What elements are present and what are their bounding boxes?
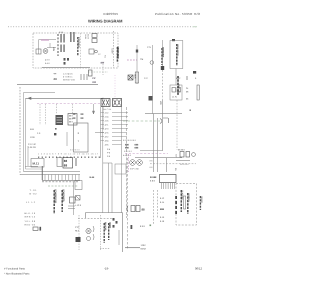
svg-text:05: 05	[186, 98, 189, 101]
small mark	[131, 225, 133, 229]
freezer compartment dashed box	[33, 33, 118, 68]
svg-text:W R B Y G B: W R B Y G B	[63, 79, 75, 82]
svg-text:J2-3: J2-3	[105, 128, 110, 131]
svg-text:P-6: P-6	[107, 148, 111, 151]
svg-text:* Non-Illustrated Parts: * Non-Illustrated Parts	[4, 273, 30, 276]
svg-text:888: 888	[125, 143, 130, 146]
defrost timer block	[56, 115, 64, 125]
wire vertical	[152, 45, 154, 114]
power cord wire	[125, 247, 140, 249]
connector J40 stacked	[92, 34, 97, 43]
wire main bus L1	[17, 84, 98, 86]
svg-text:HTR: HTR	[159, 101, 162, 105]
wire harness dashed	[113, 31, 115, 68]
svg-text:WTR VLV: WTR VLV	[180, 163, 189, 166]
svg-text:68: 68	[186, 91, 189, 94]
power plug text	[141, 244, 147, 251]
svg-text:6 7 8 9 0 1: 6 7 8 9 0 1	[63, 76, 73, 79]
wire dashed v1	[56, 104, 58, 114]
svg-text:T-01: T-01	[30, 189, 38, 192]
wire icemaker top	[39, 40, 57, 54]
svg-text:120V: 120V	[141, 244, 147, 247]
svg-text:B 888: B 888	[150, 176, 157, 179]
connector 888 block	[63, 158, 73, 169]
connector block J2	[101, 99, 110, 107]
water valve coil	[192, 153, 196, 157]
fan table pair B	[135, 143, 140, 149]
small connector box	[89, 70, 93, 76]
svg-text:# Functional Parts: # Functional Parts	[4, 268, 26, 271]
wire	[100, 107, 102, 158]
svg-text:12: 12	[98, 53, 101, 56]
svg-text:TM: TM	[140, 58, 143, 61]
wire dashed below connector	[153, 190, 155, 225]
bottom-left label block1	[30, 189, 38, 196]
svg-text:888: 888	[160, 208, 165, 211]
wire horizontal	[140, 150, 163, 152]
wire horizontal 2	[135, 157, 182, 159]
svg-text:2-0: 2-0	[37, 132, 41, 135]
wire vertical dashed 2	[45, 104, 47, 125]
svg-text:J3-2: J3-2	[105, 136, 110, 139]
svg-text:WIRING DIAGRAM: WIRING DIAGRAM	[88, 19, 123, 24]
bus vertical b	[126, 107, 128, 218]
wire dashed defrost	[162, 70, 164, 100]
svg-text:8-16: 8-16	[160, 216, 165, 219]
connector M11 box	[31, 159, 44, 168]
svg-text:L-04 2B: L-04 2B	[28, 146, 36, 149]
bottom-left label block2	[26, 201, 36, 204]
wire bus N	[24, 92, 56, 94]
wire violet dashed	[125, 153, 168, 155]
lower pin text stack	[107, 148, 111, 158]
svg-text:88: 88	[142, 208, 146, 212]
terminal labels row	[63, 73, 75, 82]
icemaker marks	[64, 58, 70, 65]
misc left labels	[28, 128, 41, 149]
board pin label column	[105, 112, 110, 147]
junction bar	[41, 166, 44, 180]
svg-text:PTC: PTC	[75, 226, 80, 229]
right column small parts: resistor bar	[197, 85, 199, 100]
wire (icemaker fill tube, violet)	[41, 39, 49, 41]
svg-text:ORG-12: ORG-12	[25, 216, 36, 219]
thermostat circle	[150, 61, 154, 65]
wire loop bottom middle	[24, 171, 81, 173]
svg-text:4 8 8: 4 8 8	[45, 59, 50, 62]
wire left loop inner	[25, 98, 27, 169]
wire dashed short	[102, 64, 104, 75]
svg-text:8 8 8 8 8 8 8 8: 8 8 8 8 8 8 8 8	[123, 139, 137, 142]
svg-text:J2-1: J2-1	[105, 124, 110, 127]
svg-text:WH C BK: WH C BK	[103, 108, 112, 111]
svg-text:1 2 3 4 5 6: 1 2 3 4 5 6	[63, 73, 73, 76]
wire left loop middle	[23, 93, 25, 172]
svg-text:8 8 8: 8 8 8	[150, 180, 156, 183]
wire	[176, 160, 190, 162]
wire pink dotted	[114, 75, 116, 105]
svg-text:888: 888	[135, 143, 140, 146]
svg-text:-19-: -19-	[104, 267, 109, 271]
icemaker mold heater	[36, 49, 41, 54]
wire	[73, 182, 75, 215]
svg-text:88 88 8: 88 88 8	[178, 149, 186, 152]
svg-text:AUGER: AUGER	[110, 48, 113, 54]
svg-text:L-12 8: L-12 8	[75, 204, 82, 207]
svg-text:88: 88	[81, 113, 84, 116]
node mark	[172, 39, 175, 41]
wire bus with arrow	[26, 97, 104, 99]
wire trunk v1	[153, 114, 155, 172]
run capacitor	[70, 197, 76, 203]
control board box	[74, 123, 89, 152]
bold pin dashes left edge	[175, 196, 177, 214]
wire loop bottom outer	[20, 174, 80, 176]
pin text stack right	[160, 197, 165, 204]
svg-text:8-12: 8-12	[160, 197, 165, 200]
svg-text:P-8: P-8	[107, 152, 111, 155]
svg-text:FZ: FZ	[93, 77, 96, 80]
dot	[190, 110, 191, 111]
defrost thermostat	[161, 66, 164, 70]
node dot	[136, 50, 138, 53]
wire vertical	[162, 40, 164, 68]
svg-text:EVP CND: EVP CND	[130, 168, 139, 171]
svg-text:DR: DR	[93, 81, 97, 84]
terminal marks	[113, 218, 118, 228]
svg-text:88 8: 88 8	[69, 121, 73, 124]
svg-text:F8: F8	[174, 168, 177, 171]
svg-text:J1-2: J1-2	[105, 112, 110, 115]
wire dashes bottom	[100, 248, 110, 250]
wire vertical right of compressor	[127, 158, 129, 250]
svg-text:60HZ: 60HZ	[141, 248, 147, 251]
svg-text:06/12: 06/12	[195, 267, 202, 271]
wire icemaker mid	[47, 43, 56, 48]
lamp assembly box	[170, 85, 182, 100]
icemaker connector pins	[60, 34, 64, 52]
light switch box SW1	[170, 41, 183, 69]
wire dashed v2	[72, 104, 74, 113]
tick	[186, 76, 188, 80]
rule end green segment	[193, 26, 198, 28]
tick	[75, 158, 77, 166]
wire vertical center	[136, 45, 138, 84]
wire vertical dashed mid	[100, 215, 102, 250]
green dot	[150, 225, 152, 227]
wire with arrow down	[92, 104, 94, 114]
svg-text:RED-04: RED-04	[25, 224, 36, 227]
wire green dashed	[48, 185, 78, 187]
capacitor plates	[68, 206, 75, 209]
svg-text:BK-WH: BK-WH	[86, 34, 89, 40]
start winding circle	[87, 237, 91, 241]
svg-text:8 8 8 8 8: 8 8 8 8 8	[124, 150, 133, 153]
icemaker box bottom wire	[42, 67, 90, 69]
svg-text:8-8: 8-8	[150, 160, 154, 163]
svg-text:J2-5: J2-5	[105, 132, 110, 135]
node mark	[193, 71, 196, 74]
svg-text:P-9: P-9	[107, 155, 111, 158]
wire vertical dashed violet	[128, 154, 130, 172]
svg-text:BLK-16: BLK-16	[25, 212, 36, 215]
compressor motor circle	[86, 228, 91, 233]
svg-text:J3-4: J3-4	[105, 140, 110, 143]
wire violet dashed mid	[37, 103, 103, 105]
bundle wire b	[111, 163, 113, 213]
svg-text:YEL-08: YEL-08	[25, 220, 36, 223]
wire short	[66, 132, 68, 146]
wire vertical	[118, 230, 120, 245]
wire vertical dashed left	[78, 215, 80, 250]
svg-text:C.C: C.C	[144, 77, 148, 80]
fan table pair A	[125, 143, 130, 149]
connector block J3	[113, 99, 122, 107]
svg-text:8 8 8: 8 8 8	[59, 31, 63, 34]
icemaker plug P1	[70, 32, 74, 42]
pin text stack right2	[160, 216, 165, 223]
cond fan motor M2	[137, 160, 143, 166]
svg-text:SNR: SNR	[134, 74, 137, 79]
svg-text:24: 24	[186, 87, 189, 90]
wire below harness	[42, 179, 80, 181]
svg-text:J3-6: J3-6	[105, 144, 110, 147]
wire vertical dashed	[39, 104, 41, 125]
svg-text:88: 88	[73, 117, 76, 120]
svg-text:888: 888	[135, 146, 140, 149]
thermostat small	[76, 196, 81, 201]
text pair	[186, 87, 189, 94]
dashed divider wire	[80, 33, 82, 68]
wire dashed horizontal	[150, 163, 196, 165]
svg-text:CTL: CTL	[147, 46, 152, 49]
cabinet box corner	[25, 146, 38, 166]
svg-text:5: 5	[195, 77, 197, 80]
svg-text:888: 888	[125, 146, 130, 149]
wire compressor top	[86, 213, 123, 252]
svg-text:Publication No. 5995R H/O: Publication No. 5995R H/O	[155, 12, 201, 16]
bundle wire a	[108, 163, 110, 213]
svg-text:RLY: RLY	[75, 230, 80, 233]
wire green wavy	[123, 120, 160, 122]
pin wires to bus	[112, 113, 128, 145]
wire (violet dashed)	[127, 59, 137, 61]
lamp freezer	[89, 49, 97, 54]
harness hatch ticks	[45, 175, 79, 181]
defrost timer box	[75, 181, 82, 190]
wire trunk horizontal	[145, 113, 182, 115]
node mark	[54, 133, 56, 135]
svg-text:B-88: B-88	[90, 176, 96, 179]
connector pins	[81, 74, 87, 80]
terminal label pair A	[73, 113, 76, 120]
sensor thermistor	[135, 72, 138, 83]
svg-text:2X: 2X	[54, 77, 58, 81]
main harness connector block	[160, 175, 177, 190]
svg-text:8-14: 8-14	[160, 201, 165, 204]
pin stubs left	[101, 113, 105, 141]
svg-text:M.11: M.11	[33, 162, 40, 166]
svg-text:J1-6: J1-6	[105, 120, 110, 123]
defrost heater marks	[149, 96, 153, 101]
svg-text:3: 3	[78, 132, 80, 135]
svg-text:4LB: 4LB	[30, 128, 34, 131]
svg-text:WV: WV	[175, 154, 178, 158]
svg-text:8 4 8: 8 4 8	[45, 62, 50, 65]
node mark2	[55, 128, 57, 130]
start relay contacts	[127, 206, 140, 212]
wire	[95, 132, 104, 134]
wire dashed	[78, 218, 112, 220]
svg-text:L1 L2: L1 L2	[26, 201, 36, 204]
svg-text:7: 7	[78, 140, 80, 143]
svg-text:L1 N: L1 N	[172, 96, 177, 99]
water valve solenoid 1	[180, 152, 184, 158]
icemaker motor M	[43, 49, 48, 54]
junction box	[115, 164, 126, 174]
bus vertical a	[121, 107, 123, 213]
limit switch	[128, 75, 133, 80]
dashed wire bottom of dispenser	[88, 71, 108, 73]
evap fan motor M1	[130, 160, 136, 166]
wire trunk v3	[162, 100, 164, 151]
svg-text:8 8 8 8 8 8: 8 8 8 8 8 8	[70, 149, 80, 152]
bottom-left notes rows	[25, 212, 36, 227]
wire dashed vertical	[176, 100, 178, 150]
bundle joint	[103, 162, 112, 164]
wire loop bottom inner	[26, 168, 43, 170]
wire	[175, 69, 177, 86]
svg-text:≈≈: ≈≈	[54, 73, 57, 76]
svg-text:P-12: P-12	[104, 55, 107, 58]
wire trunk v2	[157, 118, 159, 172]
svg-text:88: 88	[64, 159, 68, 163]
connector small	[57, 158, 62, 167]
svg-text:8 8 8: 8 8 8	[140, 225, 145, 228]
wire left loop outer	[19, 87, 21, 175]
wire dashed below connector b	[157, 190, 159, 218]
component inside box	[184, 196, 186, 209]
svg-text:P-12 4C: P-12 4C	[28, 143, 36, 146]
svg-text:88: 88	[81, 117, 84, 120]
relay block K1	[68, 114, 77, 126]
terminal label pair B	[81, 113, 84, 120]
svg-text:485: 485	[52, 47, 55, 52]
svg-text:1GN: 1GN	[30, 136, 35, 139]
bracket marks	[93, 226, 94, 240]
wire dashed dark	[42, 181, 78, 183]
wire trunk v4	[166, 158, 168, 173]
icemaker connector dashed bar	[57, 34, 59, 56]
svg-text:8-8: 8-8	[150, 166, 154, 169]
svg-text:8-18: 8-18	[160, 220, 165, 223]
wire corner down	[102, 98, 104, 130]
svg-text:DRAIN HT: DRAIN HT	[177, 84, 180, 93]
svg-text:J1-4: J1-4	[105, 116, 110, 119]
adaptive control box	[176, 184, 197, 226]
ground clip	[160, 118, 169, 124]
overload protector	[76, 237, 81, 242]
lamp L1	[172, 88, 181, 93]
wire2	[102, 107, 104, 213]
plug mark	[33, 227, 41, 231]
svg-text:88: 88	[64, 164, 68, 168]
svg-text:4 4 8 8 4: 4 4 8 8 4	[123, 154, 132, 157]
svg-text:B-02: B-02	[30, 193, 38, 196]
dotted separator rule	[8, 26, 197, 28]
svg-text:EI26SS55: EI26SS55	[104, 12, 119, 16]
water valve solenoid 2	[186, 152, 190, 158]
